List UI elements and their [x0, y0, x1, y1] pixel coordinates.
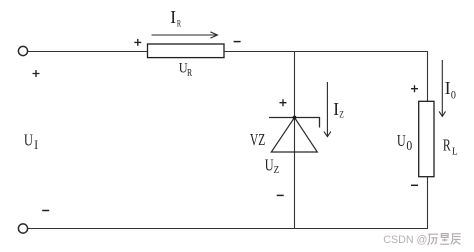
svg-text:0: 0	[406, 139, 412, 154]
plus sign (U_Z top polarity)	[280, 99, 287, 106]
zener diode VZ cathode bar with right bend	[269, 118, 320, 128]
wire top-left segment (input to resistor R)	[28, 51, 148, 53]
svg-text:Z: Z	[274, 164, 280, 176]
watermark hanzi 昱	[440, 234, 449, 245]
label I_Z	[333, 99, 344, 120]
svg-text:CSDN @: CSDN @	[383, 234, 427, 246]
label U_R	[179, 60, 193, 79]
label U_0	[397, 133, 412, 154]
resistor R box	[148, 44, 225, 58]
label R_L	[443, 137, 458, 158]
arrow I_Z (zener current, downward)	[324, 82, 331, 137]
arrow I_0 (output current, downward)	[439, 60, 445, 116]
terminal circle input bottom	[18, 224, 27, 233]
minus sign (U_0 bottom polarity)	[411, 184, 418, 186]
minus sign (right of resistor R)	[234, 41, 241, 43]
label U_Z	[265, 157, 279, 177]
svg-text:0: 0	[451, 89, 456, 102]
svg-text:I: I	[170, 7, 176, 27]
label U_I	[24, 132, 38, 152]
svg-text:I: I	[445, 78, 451, 98]
terminal circle input top	[18, 46, 27, 55]
wire middle branch (zener branch vertical)	[294, 51, 296, 229]
svg-text:R: R	[187, 67, 193, 78]
svg-text:U: U	[265, 157, 274, 175]
minus sign (U_Z bottom polarity)	[277, 194, 284, 196]
wire right branch lower (R_L to bottom rail)	[427, 177, 429, 229]
zener diode VZ triangle (anode)	[271, 118, 317, 153]
label I_0	[445, 78, 457, 102]
wire right branch upper (top corner down to R_L)	[427, 51, 429, 102]
wire bottom rail	[28, 228, 428, 230]
svg-text:I: I	[34, 137, 38, 152]
svg-text:R: R	[443, 137, 451, 155]
svg-text:U: U	[397, 133, 406, 151]
junction dot at zener cathode	[293, 116, 297, 120]
watermark hanzi 厉	[428, 234, 438, 245]
plus sign (left of resistor R)	[134, 39, 141, 46]
label I_R	[170, 7, 181, 29]
svg-text:I: I	[333, 99, 339, 119]
plus sign (U_0 top polarity)	[411, 85, 418, 92]
wire top-middle segment (resistor R to right corner)	[224, 51, 428, 53]
resistor R_L box	[419, 101, 434, 176]
svg-text:Z: Z	[339, 109, 344, 120]
arrow I_R (current direction over resistor)	[152, 32, 218, 38]
svg-text:VZ: VZ	[250, 131, 265, 150]
minus sign (U_I bottom polarity)	[42, 210, 49, 212]
svg-text:L: L	[452, 146, 458, 158]
svg-text:U: U	[24, 132, 33, 150]
plus sign (U_I top polarity)	[33, 70, 40, 77]
svg-text:R: R	[177, 18, 182, 29]
watermark hanzi 辰	[451, 234, 461, 245]
